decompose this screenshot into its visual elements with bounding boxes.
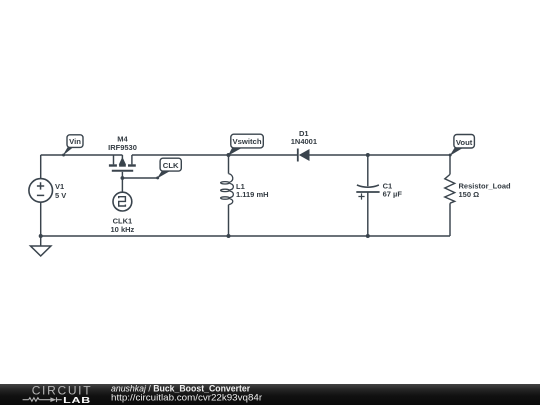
svg-text:Vswitch: Vswitch <box>232 137 261 146</box>
svg-text:1N4001: 1N4001 <box>291 137 317 146</box>
svg-text:Vout: Vout <box>456 138 473 147</box>
svg-text:V1: V1 <box>55 182 64 191</box>
svg-text:1.119 mH: 1.119 mH <box>236 190 269 199</box>
svg-text:Vin: Vin <box>69 137 81 146</box>
svg-text:CLK: CLK <box>163 161 179 170</box>
svg-text:IRF9530: IRF9530 <box>108 143 137 152</box>
svg-text:10 kHz: 10 kHz <box>111 225 135 234</box>
svg-text:LAB: LAB <box>63 396 91 405</box>
svg-text:http://circuitlab.com/cvr22k93: http://circuitlab.com/cvr22k93vq84r <box>111 392 262 403</box>
svg-text:67 µF: 67 µF <box>383 189 403 198</box>
svg-text:150 Ω: 150 Ω <box>459 190 480 199</box>
svg-text:5 V: 5 V <box>55 191 66 200</box>
